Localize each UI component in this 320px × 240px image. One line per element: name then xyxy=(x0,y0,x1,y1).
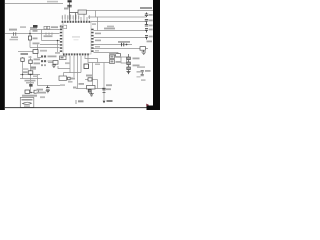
relay box K1b xyxy=(110,60,115,64)
wire vert x37 xyxy=(38,53,42,57)
connector pads J2 xyxy=(41,55,43,57)
label x140 y66 xyxy=(137,66,145,68)
wire long vert x104 xyxy=(103,63,105,104)
op-amp U1 body xyxy=(63,22,91,54)
wire right net A xyxy=(88,11,147,18)
resistor R1 xyxy=(28,36,31,40)
label bottom row xyxy=(22,95,37,97)
label x40 y96 xyxy=(40,96,45,98)
bottom border line xyxy=(5,106,153,109)
label right corner xyxy=(147,41,153,43)
component box U3 xyxy=(121,57,127,63)
diode D4 xyxy=(127,67,131,70)
U1 top pin labels xyxy=(62,15,90,19)
capacitor C14 y37 xyxy=(145,36,148,40)
wire tick x76 bottom xyxy=(75,100,77,104)
bottom right black patch xyxy=(147,106,161,111)
wire top VCC bus xyxy=(5,3,63,5)
wire IC pin lead up 1 xyxy=(83,11,85,22)
component box y90 xyxy=(25,90,30,93)
wire h y58 xyxy=(85,56,98,63)
junction y74 xyxy=(30,74,32,76)
label x145 y70 xyxy=(145,70,151,72)
label right x104 xyxy=(106,84,112,86)
component box Q1 xyxy=(59,76,67,80)
wire IC bottom net 4 xyxy=(80,56,82,73)
label C7 xyxy=(118,41,130,43)
wire right stub y48 xyxy=(94,48,149,50)
wire h y72 xyxy=(64,72,82,74)
wire v x128 xyxy=(128,54,130,74)
label J2 xyxy=(48,56,57,58)
label under Q1 xyxy=(68,81,73,83)
U1 center marking xyxy=(72,36,80,38)
junction dot xyxy=(29,33,31,35)
wire h y74 xyxy=(20,74,40,76)
label Q1 xyxy=(71,78,75,80)
label below y21 line xyxy=(107,26,114,28)
junction y44 xyxy=(126,44,128,46)
component box at U1 top-left xyxy=(61,25,67,28)
wire right net B xyxy=(91,21,147,23)
label left of it xyxy=(22,71,28,73)
wire IC pin lead up 3 xyxy=(86,17,88,21)
capacitor C1 xyxy=(67,5,71,7)
wire mic net xyxy=(18,51,33,53)
label y35 xyxy=(44,35,53,37)
connector box J4 xyxy=(116,54,121,57)
label left x74 xyxy=(73,87,77,89)
connector J1 label xyxy=(9,29,17,31)
capacitor C10 xyxy=(145,13,148,18)
component on y74 xyxy=(28,71,33,74)
label y52 x55 xyxy=(55,52,60,54)
resistor R2 on v22 xyxy=(21,58,24,61)
wire right stub y44 xyxy=(94,44,133,46)
wire jog y68 xyxy=(58,66,70,69)
label x78 y83 xyxy=(79,83,85,85)
transformer T1 xyxy=(87,86,96,90)
wire top-right bus xyxy=(87,10,154,12)
crystal Y1 xyxy=(78,10,87,14)
diode D5 below xyxy=(88,90,91,93)
wire net y40 xyxy=(42,40,61,42)
wire gnd bus y88 xyxy=(76,88,104,90)
wire left input net xyxy=(5,33,60,35)
label R1 xyxy=(33,30,38,32)
label near C1 xyxy=(64,8,69,10)
resistor R9 xyxy=(88,78,92,81)
wire right stub y37 xyxy=(94,37,147,39)
label pads xyxy=(51,26,58,28)
wire net y44 xyxy=(40,44,60,46)
label VCC2 xyxy=(33,25,38,28)
label y88 left xyxy=(37,89,44,91)
label near x88 xyxy=(86,75,92,77)
U1 left pin pads xyxy=(60,26,62,52)
label C3 xyxy=(33,43,40,45)
label y92 left xyxy=(37,92,47,94)
label x60 y84 xyxy=(60,84,65,86)
wire v x30 low xyxy=(30,56,32,93)
left border bar xyxy=(0,0,5,110)
label right of arrow xyxy=(107,100,113,102)
label small x28 xyxy=(29,56,32,58)
crystal Y2 xyxy=(33,50,38,54)
labels right chain xyxy=(149,14,153,16)
U1 top pin pads xyxy=(62,21,91,23)
capacitor C15 xyxy=(68,77,71,80)
wire net y47 xyxy=(30,47,60,49)
junction y74 b xyxy=(22,74,24,76)
wire IC bottom net 1 xyxy=(69,56,71,74)
ground under T1 xyxy=(89,93,94,97)
label above K1 xyxy=(109,53,116,55)
label above y30 line xyxy=(104,28,115,30)
label x78 y100 xyxy=(78,100,84,102)
label x23 y68 xyxy=(23,68,29,70)
wire v x22 xyxy=(22,57,24,79)
component box D1 xyxy=(53,61,58,65)
capacitor C13 y30 xyxy=(145,29,148,33)
wire IC bottom net 2 xyxy=(73,56,75,78)
node VCC label xyxy=(68,0,72,2)
component on x104 xyxy=(102,88,105,90)
label y50 left xyxy=(40,50,47,52)
label row y82 xyxy=(26,82,34,84)
label +5V xyxy=(31,67,37,69)
label bus right xyxy=(140,7,152,9)
label x141 y79 xyxy=(141,79,146,81)
connector box J3 xyxy=(140,47,146,51)
labels right of diodes xyxy=(133,58,140,60)
wire IC pin lead up 2 xyxy=(80,17,82,21)
label x95 y63 xyxy=(95,64,100,66)
ground right xyxy=(142,52,147,55)
capacitor C8 xyxy=(84,64,89,69)
capacitor C11 xyxy=(145,20,148,22)
capacitor ticks on y33 xyxy=(46,33,52,36)
label MIC xyxy=(21,53,29,55)
wire v x97 xyxy=(97,80,99,89)
label mid y62 xyxy=(65,62,70,64)
component right y90 xyxy=(34,90,39,93)
junction dot y40 xyxy=(57,40,59,42)
capacitor C12 xyxy=(145,22,148,27)
wire right stub y30 xyxy=(94,30,147,32)
wire IC bottom net 3 xyxy=(77,56,79,89)
wire h y62 xyxy=(88,56,110,63)
right border bar xyxy=(153,0,160,110)
relay box K1 xyxy=(110,55,115,58)
wire net to pin row2 xyxy=(30,29,60,31)
wire vert x97 xyxy=(97,17,99,31)
label right of K1 xyxy=(116,56,121,58)
connector pads top xyxy=(44,26,47,29)
label R3 xyxy=(34,59,41,61)
wire VCC down xyxy=(69,2,71,20)
component chain x142 xyxy=(141,70,144,76)
wire h y78 xyxy=(20,78,42,80)
U1 top pin leads xyxy=(62,18,78,21)
label row y80 xyxy=(25,80,36,82)
component box U2 xyxy=(60,56,67,60)
label C2 xyxy=(11,37,18,39)
ground arrow bottom x104 xyxy=(103,101,106,103)
wire v x37 low xyxy=(37,75,39,86)
capacitor C2 xyxy=(14,32,16,36)
wire h y79 xyxy=(85,79,98,81)
wire right stub y52 xyxy=(94,53,119,55)
right chain top caps xyxy=(145,13,148,27)
red mark bottom right xyxy=(146,104,149,107)
label faint col x136 xyxy=(137,71,141,73)
wire h y85 xyxy=(38,85,61,87)
wire h y62 left xyxy=(48,62,53,64)
resistor R3 on v30 xyxy=(29,60,32,64)
capacitor C9 mid xyxy=(46,86,50,90)
wire J3 down xyxy=(143,50,145,52)
capacitor C7 inline y44 xyxy=(122,43,124,47)
wire vert x41 xyxy=(41,30,43,41)
diode D3 xyxy=(127,62,131,65)
wire vert x37 up xyxy=(37,45,39,50)
label pins right of U1 xyxy=(95,33,101,35)
wire h y92 xyxy=(31,92,41,94)
U1 bottom pin pads xyxy=(63,53,89,55)
component y84 xyxy=(29,84,32,87)
ground x128 xyxy=(127,72,131,74)
label x31 y68 xyxy=(31,68,36,70)
label above net y29 xyxy=(30,27,37,29)
junction tick x104 xyxy=(103,92,106,94)
wire C1 down xyxy=(70,13,79,21)
junction y88 xyxy=(92,88,94,90)
label under pads x92 xyxy=(92,23,96,25)
ground xyxy=(52,65,56,68)
wire node R1 top xyxy=(29,30,31,48)
label net top xyxy=(47,1,58,3)
wire v x92 xyxy=(92,63,94,89)
label left faint xyxy=(20,26,26,28)
logo title block xyxy=(20,98,34,108)
wire v x63 xyxy=(63,73,65,77)
ground mid xyxy=(46,90,50,93)
junction dot y92 xyxy=(30,92,32,94)
wire vert x57 xyxy=(57,41,59,53)
U1 right pin pads xyxy=(91,29,93,52)
label x33 y75 xyxy=(33,76,38,78)
diode D2 xyxy=(127,57,131,60)
